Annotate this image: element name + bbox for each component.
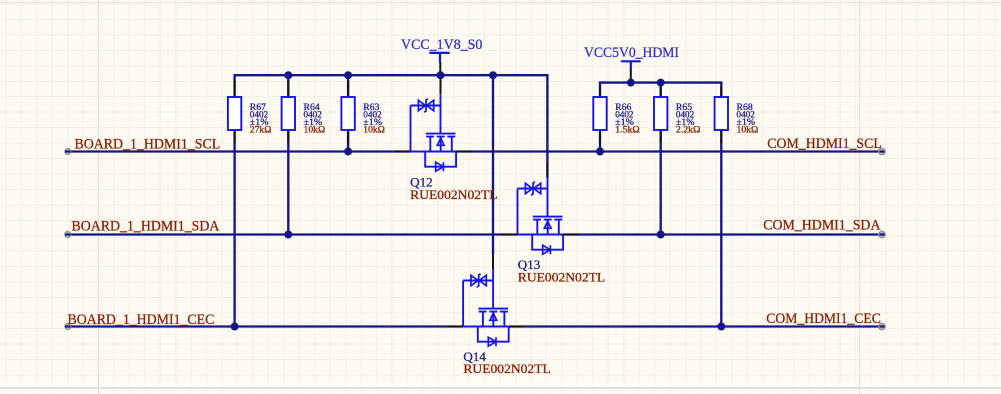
svg-text:COM_HDMI1_SCL: COM_HDMI1_SCL (767, 135, 882, 152)
svg-text:10kΩ: 10kΩ (304, 124, 326, 134)
svg-text:BOARD_1_HDMI1_CEC: BOARD_1_HDMI1_CEC (68, 311, 215, 328)
svg-text:10kΩ: 10kΩ (737, 124, 759, 134)
svg-text:27kΩ: 27kΩ (250, 124, 272, 134)
svg-text:RUE002N02TL: RUE002N02TL (463, 361, 550, 376)
svg-text:BOARD_1_HDMI1_SDA: BOARD_1_HDMI1_SDA (72, 218, 220, 235)
svg-text:RUE002N02TL: RUE002N02TL (518, 270, 605, 285)
svg-text:COM_HDMI1_SDA: COM_HDMI1_SDA (763, 217, 880, 234)
svg-text:VCC5V0_HDMI: VCC5V0_HDMI (584, 44, 679, 61)
svg-text:BOARD_1_HDMI1_SCL: BOARD_1_HDMI1_SCL (75, 136, 221, 153)
svg-text:1.5kΩ: 1.5kΩ (615, 124, 640, 134)
svg-text:2.2kΩ: 2.2kΩ (676, 124, 701, 134)
svg-text:RUE002N02TL: RUE002N02TL (410, 187, 497, 202)
svg-text:10kΩ: 10kΩ (363, 124, 385, 134)
svg-text:COM_HDMI1_CEC: COM_HDMI1_CEC (766, 310, 881, 327)
svg-text:VCC_1V8_S0: VCC_1V8_S0 (401, 36, 483, 53)
